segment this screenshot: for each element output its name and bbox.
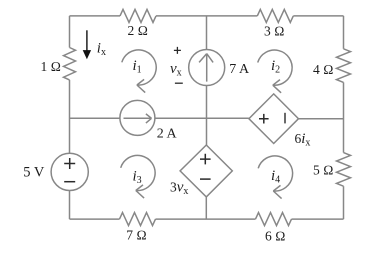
resistor 3 ohm — [257, 9, 293, 22]
wire right top segment — [343, 16, 345, 49]
wire middle-right segment — [299, 118, 344, 120]
resistor 7 ohm — [120, 213, 156, 226]
resistor 4 ohm — [337, 49, 351, 83]
current source I1 7A — [189, 50, 225, 86]
svg-text:6 Ω: 6 Ω — [265, 228, 286, 243]
svg-text:3vx: 3vx — [170, 180, 188, 198]
svg-text:3 Ω: 3 Ω — [264, 24, 285, 39]
wire middle-left segment — [70, 117, 120, 119]
svg-text:5 Ω: 5 Ω — [313, 163, 334, 178]
wire left top segment — [69, 16, 71, 48]
wire left bottom segment — [69, 191, 71, 220]
resistor 2 ohm — [120, 9, 156, 22]
wire top-right segment — [293, 15, 343, 17]
dependent source 6ix diamond — [249, 94, 299, 144]
svg-text:7 A: 7 A — [229, 62, 250, 77]
wire center segment below 7A — [206, 86, 208, 119]
svg-text:5 V: 5 V — [23, 164, 45, 180]
resistor 6 ohm — [256, 213, 292, 226]
wire top-left segment — [70, 15, 121, 17]
wire center bottom segment — [205, 197, 207, 219]
wire center top segment — [206, 16, 208, 50]
wire middle-center segment — [155, 117, 249, 119]
svg-text:1 Ω: 1 Ω — [41, 59, 62, 74]
svg-text:vx: vx — [170, 61, 182, 79]
current source I2 2A — [120, 100, 155, 135]
label vx with polarity — [174, 47, 181, 54]
wire top-middle segment — [156, 15, 257, 17]
voltage source V1 5V — [51, 153, 88, 190]
svg-text:ix: ix — [97, 41, 106, 59]
wire right middle segment — [343, 82, 345, 152]
mesh current i2 — [258, 50, 292, 85]
wire bottom-right segment — [292, 218, 344, 220]
svg-text:2 A: 2 A — [157, 127, 178, 142]
wire bottom-middle segment — [156, 218, 256, 220]
current arrow ix — [86, 30, 88, 52]
wire right bottom segment — [343, 186, 345, 219]
svg-text:i2: i2 — [271, 58, 280, 76]
svg-text:2 Ω: 2 Ω — [128, 23, 149, 38]
mesh current i3 — [121, 155, 155, 190]
svg-text:i4: i4 — [271, 168, 280, 186]
svg-text:i3: i3 — [133, 169, 142, 187]
svg-text:i1: i1 — [133, 58, 142, 76]
svg-text:4 Ω: 4 Ω — [313, 62, 334, 77]
wire bottom-left segment — [70, 218, 120, 220]
dependent source 3vx diamond — [180, 145, 232, 197]
mesh current i1 — [122, 50, 156, 85]
wire center below middle — [206, 118, 208, 145]
svg-text:7 Ω: 7 Ω — [126, 227, 147, 242]
svg-text:6ix: 6ix — [295, 131, 311, 149]
wire left middle segment — [69, 80, 71, 153]
mesh current i4 — [258, 156, 292, 191]
resistor 5 ohm — [337, 153, 351, 187]
resistor 1 ohm — [64, 48, 76, 80]
